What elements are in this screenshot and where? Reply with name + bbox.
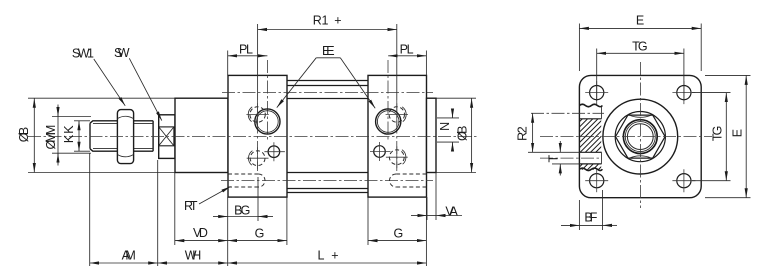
svg-text:BF: BF (584, 211, 597, 225)
svg-text:PL: PL (400, 43, 414, 57)
svg-text:R2: R2 (515, 126, 529, 141)
svg-text:ØB: ØB (456, 126, 470, 142)
svg-text:R1 +: R1 + (313, 14, 342, 28)
svg-text:PL: PL (239, 43, 253, 57)
svg-text:G: G (393, 227, 403, 241)
svg-text:N: N (438, 122, 452, 131)
svg-text:EE: EE (322, 44, 335, 58)
svg-text:L +: L + (318, 249, 339, 263)
svg-text:VD: VD (193, 226, 208, 240)
svg-text:E: E (636, 14, 644, 28)
svg-text:AM: AM (122, 249, 136, 263)
svg-text:ØB: ØB (17, 127, 31, 143)
svg-text:T: T (547, 155, 561, 163)
svg-text:BG: BG (234, 203, 250, 217)
svg-text:ØMM: ØMM (44, 125, 58, 150)
svg-text:KK: KK (62, 125, 76, 143)
svg-text:E: E (731, 129, 745, 137)
svg-text:VA: VA (445, 204, 458, 218)
svg-text:TG: TG (711, 126, 725, 142)
svg-text:TG: TG (632, 39, 648, 53)
svg-text:SW1: SW1 (72, 47, 94, 61)
svg-text:WH: WH (185, 249, 202, 263)
svg-text:SW: SW (114, 46, 130, 60)
svg-text:RT: RT (184, 199, 198, 213)
svg-text:G: G (255, 227, 265, 241)
